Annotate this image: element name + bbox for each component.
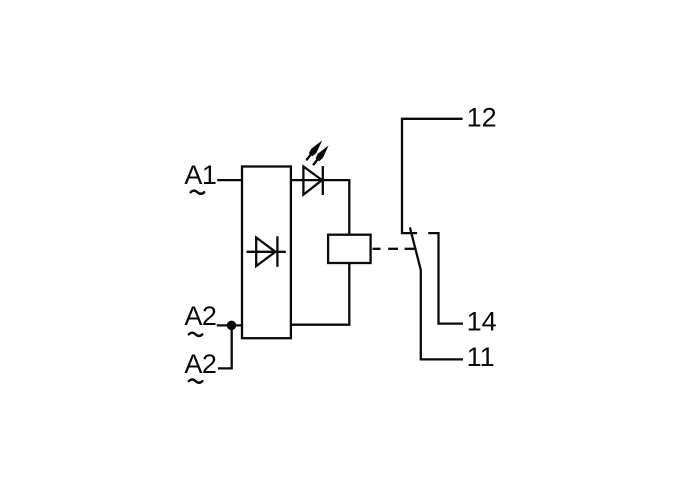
node A2 AC tilde (lower)	[189, 380, 203, 383]
svg-text:A1: A1	[184, 160, 216, 190]
svg-text:A2: A2	[184, 349, 216, 379]
junction dot	[227, 321, 237, 331]
LED emission arrow 2	[314, 145, 329, 164]
node A1 AC tilde	[191, 191, 205, 194]
dashed actuation link	[373, 248, 415, 250]
svg-text:A2: A2	[184, 301, 216, 331]
LED D2	[303, 166, 322, 195]
wire rectifier to LED to coil	[291, 180, 349, 235]
node A2 AC tilde (upper)	[189, 333, 203, 336]
wire A2 to rectifier	[217, 324, 243, 326]
wire contact 12	[402, 119, 463, 233]
svg-text:14: 14	[467, 307, 497, 337]
LED emission arrow 1	[307, 140, 322, 159]
wire A1 to rectifier	[217, 179, 243, 181]
relay coil K1	[328, 235, 371, 263]
svg-text:11: 11	[467, 342, 495, 372]
wire coil bottom to rectifier	[291, 263, 349, 325]
wire lower A2 to junction	[218, 325, 232, 368]
bridge rectifier box	[242, 167, 291, 339]
rectifier diode D1	[247, 236, 286, 266]
switch lever to contact 11	[410, 227, 463, 359]
wire contact 14	[428, 233, 463, 324]
svg-text:12: 12	[467, 103, 497, 133]
